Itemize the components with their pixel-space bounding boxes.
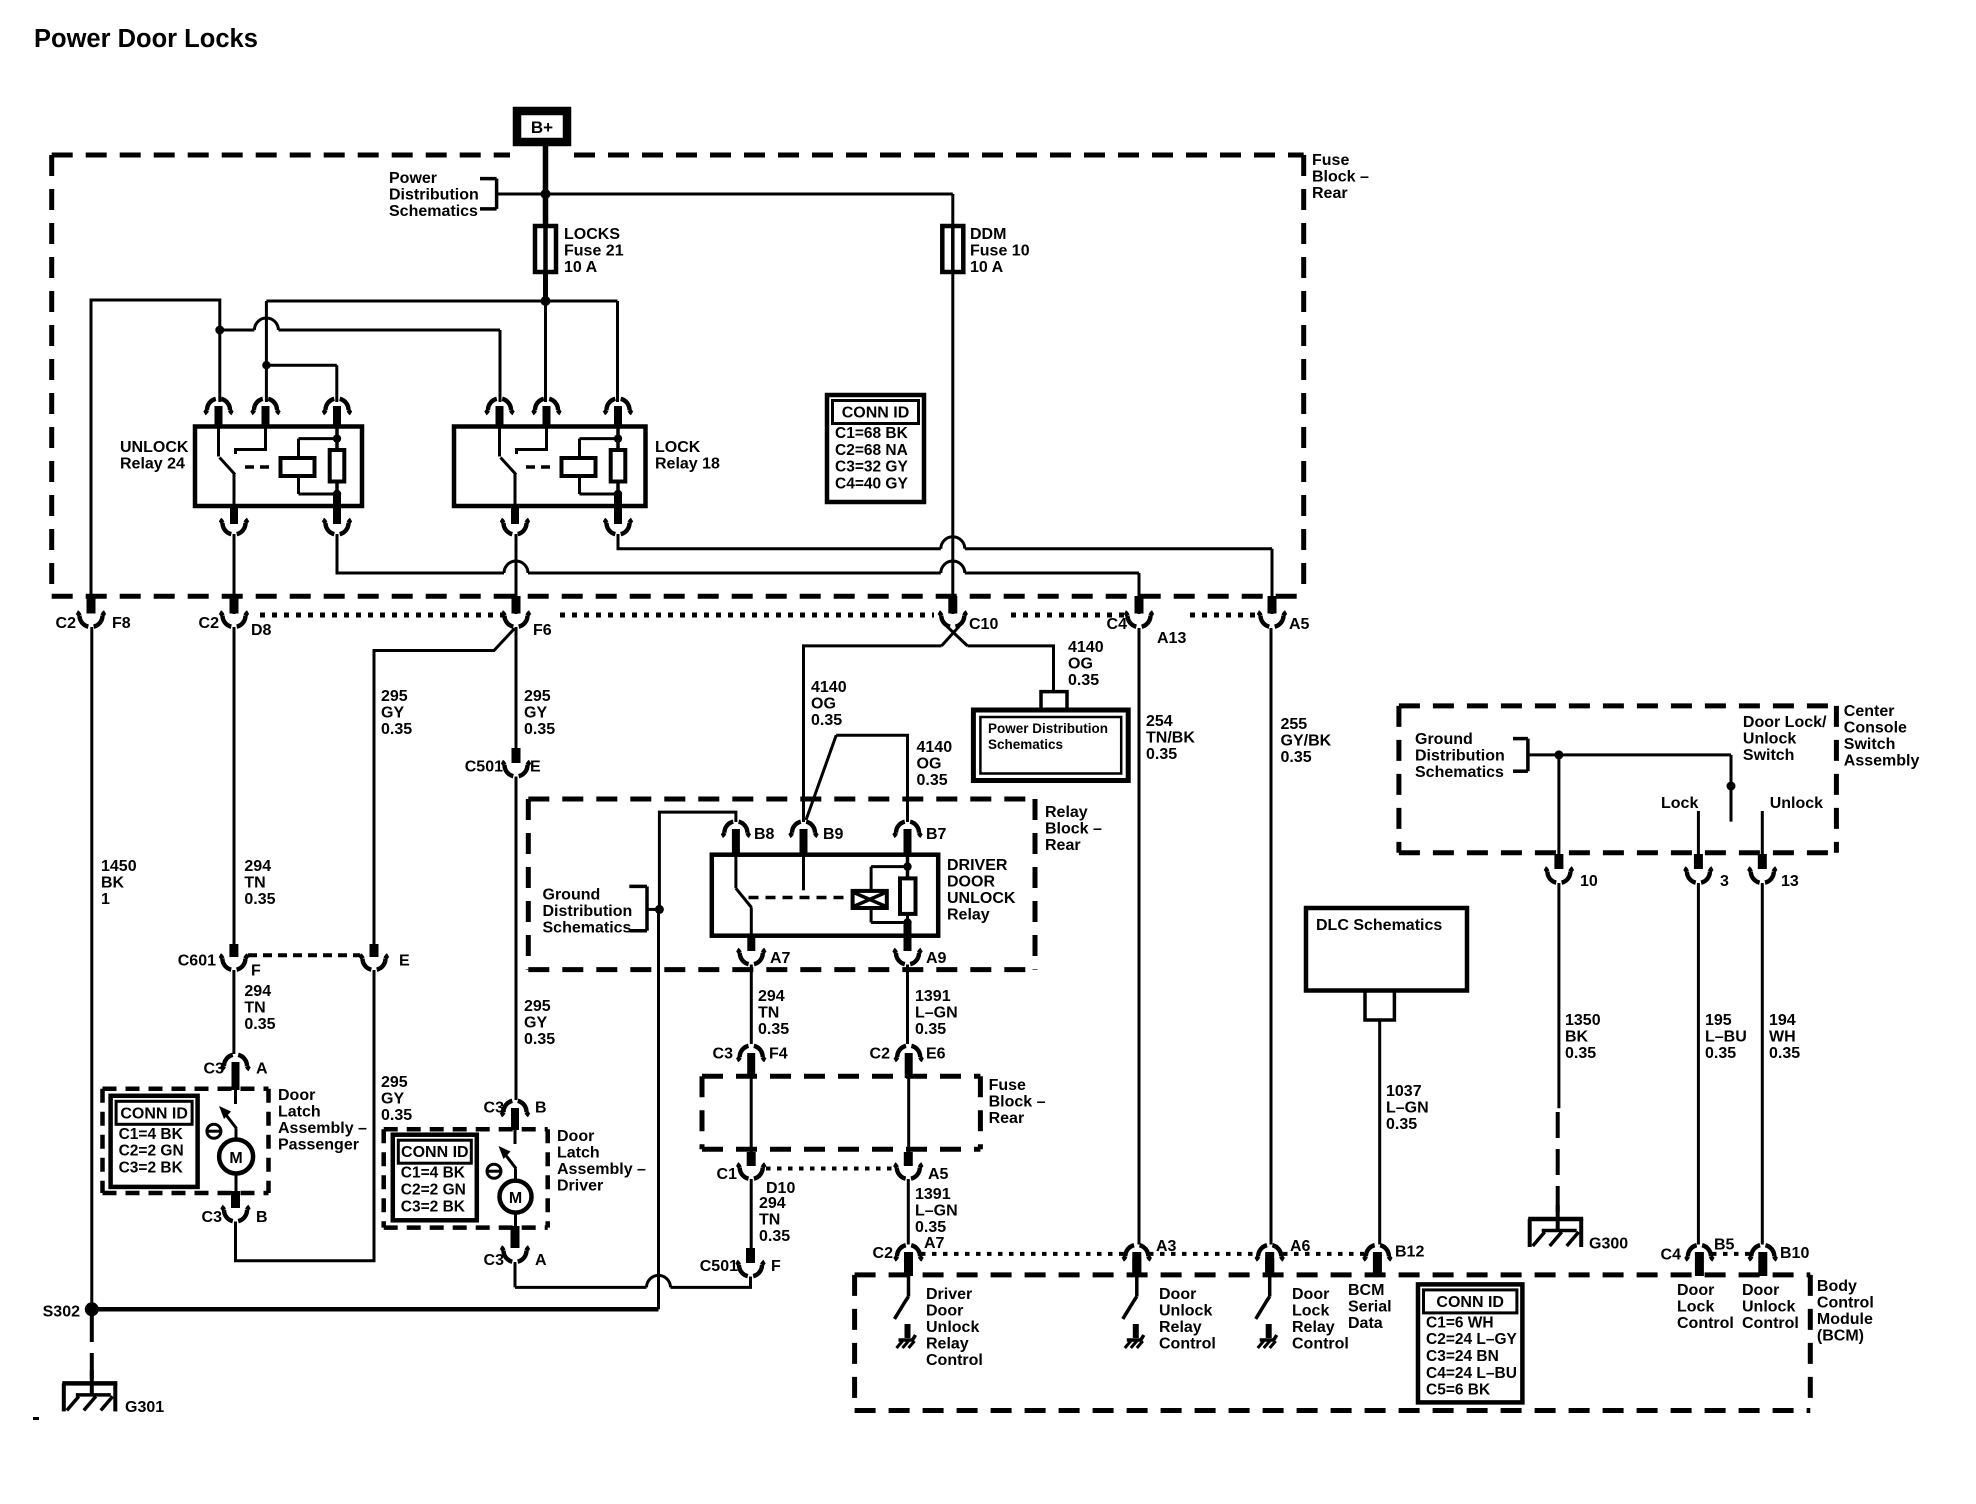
wire F4-D10 through fuse block [750,1078,753,1152]
label B (pass) [256,1209,268,1226]
label C3 (drv A) [484,1252,505,1269]
connector C2 A7 (BCM) [894,1245,922,1276]
connector A13 [1125,596,1153,627]
label door lock/unlock switch [1743,714,1827,764]
svg-text:Serial: Serial [1348,1299,1392,1316]
wire UNLOCK sw out to D8 [233,534,236,614]
connector C2 E6 [895,1046,923,1078]
svg-text:Unlock: Unlock [1742,1299,1795,1316]
label A (drv) [535,1252,547,1269]
label A6 [1290,1238,1311,1255]
svg-text:M: M [229,1150,242,1167]
svg-text:C501: C501 [465,759,503,776]
svg-text:C2=24 L–GY: C2=24 L–GY [1426,1331,1518,1348]
svg-text:UNLOCK: UNLOCK [120,439,189,456]
hop over F6 line [504,561,528,573]
svg-text:Fuse 10: Fuse 10 [970,243,1030,260]
svg-text:Assembly –: Assembly – [557,1161,646,1178]
connector pin 10 [1545,854,1573,883]
label door lock control [1677,1282,1734,1332]
svg-text:Relay: Relay [926,1336,969,1353]
node ground bus [655,905,664,914]
relay DDU coil bracket [871,867,907,923]
svg-text:0.35: 0.35 [244,891,275,908]
svg-text:Rear: Rear [1312,185,1348,202]
svg-text:GY/BK: GY/BK [1281,733,1332,750]
connector C1 D10 [737,1152,765,1179]
label B5 [1714,1237,1735,1254]
label 1450 BK 1 [101,858,137,908]
svg-text:C3: C3 [713,1046,734,1063]
svg-text:C4: C4 [1107,616,1128,633]
connector F6 [502,596,530,627]
label A7 [770,950,791,967]
svg-text:0.35: 0.35 [758,1021,789,1038]
label 195 L-BU 0.35 [1705,1012,1747,1062]
label C2 (E6) [870,1046,891,1063]
connector A5 (lower) [894,1152,922,1179]
svg-text:295: 295 [524,998,551,1015]
svg-text:1450: 1450 [101,858,137,875]
label 295 GY 0.35 (C601 side) [381,688,412,738]
label F8 [112,615,131,632]
svg-text:Relay: Relay [947,907,990,924]
svg-text:BCM: BCM [1348,1282,1384,1299]
svg-text:Block –: Block – [1045,821,1102,838]
svg-text:DDM: DDM [970,226,1006,243]
svg-text:254: 254 [1146,713,1173,730]
svg-text:B8: B8 [754,826,775,843]
svg-text:DRIVER: DRIVER [947,857,1008,874]
label C501 (F) [700,1258,738,1275]
svg-text:C2: C2 [56,615,77,632]
svg-text:0.35: 0.35 [1565,1045,1596,1062]
svg-text:GY: GY [524,1015,547,1032]
stray mark [33,1417,39,1420]
relay DRIVER DOOR UNLOCK [712,855,938,936]
conn id driver latch [393,1135,477,1221]
svg-text:C3: C3 [202,1209,223,1226]
label 295 GY 0.35 (C501 side) [524,688,555,738]
svg-text:B: B [256,1209,268,1226]
relay UNLOCK Relay 24 [120,399,362,534]
dotted line D10-A5 [766,1167,894,1171]
svg-text:Block –: Block – [989,1094,1046,1111]
svg-text:TN: TN [758,1005,779,1022]
svg-text:CONN ID: CONN ID [842,405,910,422]
wire lock contact [1697,811,1700,854]
svg-text:F: F [251,963,261,980]
node unlock pin2/pin3 [262,361,270,369]
label E (C501) [530,759,541,776]
svg-text:Fuse 21: Fuse 21 [564,243,624,260]
svg-text:Data: Data [1348,1315,1383,1332]
connector C501 F [736,1248,764,1276]
label C3 (F4) [713,1046,734,1063]
label center console switch assembly [1844,703,1920,770]
wire DLC to B12 [1378,1020,1381,1245]
motor M passenger [219,1129,253,1192]
svg-text:B9: B9 [823,826,844,843]
node switch common [1554,750,1563,759]
svg-text:Lock: Lock [1661,795,1698,812]
label C2 at D8 [199,615,220,632]
label 295 GY 0.35 (E lower) [381,1074,412,1124]
wire 4140 diagonal to B9 [806,735,836,820]
svg-text:Rear: Rear [989,1110,1025,1127]
label C3 (pass B) [202,1209,223,1226]
svg-text:Control: Control [1292,1336,1349,1353]
svg-text:F4: F4 [769,1046,788,1063]
svg-text:A13: A13 [1157,630,1186,647]
wire ground to B8 [659,812,736,909]
label E6 [926,1046,946,1063]
label C3 (pass A) [204,1061,225,1078]
svg-text:Door: Door [1742,1282,1779,1299]
wire D8 to C601/F [233,627,236,944]
label F (C601) [251,963,261,980]
label C601 [178,953,216,970]
label door latch assembly - passenger [278,1087,367,1154]
svg-text:Schematics: Schematics [988,737,1063,752]
dotted BCM connector line [921,1252,1750,1256]
label body control module [1817,1278,1874,1345]
dashed C601 connector line [248,953,360,957]
wire A5 to A6 [1270,628,1273,1245]
label F (C501) [771,1258,781,1275]
svg-text:Console: Console [1844,720,1907,737]
wire A7 to F4 [750,965,753,1045]
svg-text:0.35: 0.35 [915,1021,946,1038]
label B12 [1395,1244,1424,1261]
svg-text:Schematics: Schematics [1415,764,1504,781]
svg-text:0.35: 0.35 [381,1107,412,1124]
label Unlock [1770,795,1823,812]
svg-text:1037: 1037 [1386,1083,1422,1100]
label G301 [125,1399,164,1416]
svg-text:CONN ID: CONN ID [120,1105,188,1122]
fuse LOCKS Fuse 21 10A [535,226,556,272]
wire pin 10 [1557,755,1560,854]
svg-text:UNLOCK: UNLOCK [947,890,1016,907]
svg-text:Switch: Switch [1844,736,1896,753]
connector F8 [77,596,105,627]
svg-text:A5: A5 [928,1166,949,1183]
svg-text:LOCK: LOCK [655,439,701,456]
svg-text:1: 1 [101,891,110,908]
svg-text:F6: F6 [533,622,552,639]
label driver door unlock relay [947,857,1016,924]
connector A6 (BCM) [1256,1245,1284,1276]
connector pin 3 [1684,854,1712,883]
svg-text:C3=24 BN: C3=24 BN [1426,1348,1499,1365]
BCM door lock relay control switch [1256,1258,1277,1348]
svg-text:Distribution: Distribution [1415,748,1505,765]
svg-text:L–GN: L–GN [915,1203,958,1220]
svg-text:3: 3 [1720,873,1729,890]
wire LOCK sw out to F6 [515,534,518,614]
wire F6 to passenger branch [374,629,515,945]
label driver door unlock relay control [926,1286,983,1369]
relay DDU mech dashes [749,896,846,900]
label C501 (E) [465,759,503,776]
wire to G300 dashed [1556,1112,1560,1216]
svg-text:L–BU: L–BU [1705,1029,1747,1046]
svg-text:Fuse: Fuse [989,1077,1026,1094]
label C4 (BCM) [1661,1247,1682,1264]
wire 4140 to B7 [836,735,907,822]
svg-text:GY: GY [381,1091,404,1108]
wire A9 to E6 [906,965,909,1045]
wire C601/F to latch A [232,970,235,1054]
conn id BCM [1418,1284,1522,1402]
label 294 TN 0.35 (C601) [244,983,275,1033]
svg-text:D8: D8 [251,622,272,639]
bracket power dist box [1041,692,1067,709]
svg-text:A9: A9 [926,950,947,967]
wire F8 to S302 [90,627,93,1309]
label A7 (BCM) [924,1235,945,1252]
svg-text:C2=2 GN: C2=2 GN [119,1143,184,1160]
fuse block - rear (lower) dashed boundary [702,1076,980,1149]
svg-text:4140: 4140 [917,739,953,756]
box DLC schematics [1306,908,1467,991]
svg-text:C2: C2 [870,1046,891,1063]
label 4140 OG 0.35 right [1068,639,1104,689]
label door unlock relay control [1159,1286,1216,1353]
svg-text:L–GN: L–GN [915,1005,958,1022]
label 194 WH 0.35 [1769,1012,1800,1062]
label S302 [43,1304,80,1321]
door latch assembly - driver dashed box [384,1129,548,1227]
svg-text:Ground: Ground [543,887,601,904]
svg-text:0.35: 0.35 [524,721,555,738]
label A9 [926,950,947,967]
wire to DDM fuse [546,194,953,227]
svg-text:Door: Door [1677,1282,1714,1299]
svg-text:OG: OG [917,756,942,773]
svg-text:TN: TN [244,875,265,892]
label 1037 L-GN 0.35 [1386,1083,1429,1133]
svg-text:Control: Control [1817,1295,1874,1312]
svg-text:F8: F8 [112,615,131,632]
wire DDM fuse to C10 [951,272,954,614]
svg-text:Center: Center [1844,703,1895,720]
svg-text:BK: BK [1565,1029,1589,1046]
svg-text:DLC Schematics: DLC Schematics [1316,917,1442,934]
svg-text:C501: C501 [700,1258,738,1275]
B+ terminal [517,111,567,142]
svg-text:C10: C10 [969,616,998,633]
svg-text:Control: Control [1677,1315,1734,1332]
wire down to LOCK relay pin3 [616,301,619,402]
wire E6-A5 through fuse block [907,1078,910,1152]
BCM driver door unlock relay control switch [895,1258,916,1348]
fuse block - rear (lower) label [989,1077,1046,1127]
wire down to LOCK relay pin1 [499,330,502,402]
node on B+ feed [541,189,551,199]
hop over DDM line [941,561,965,573]
svg-text:E: E [399,953,410,970]
connector B9 [789,822,817,856]
door latch assembly - passenger dashed box [103,1089,269,1193]
wire down to UNLOCK pin1 [218,330,221,402]
ground G301 [62,1370,117,1411]
wire hop over pin2 feed [254,318,278,330]
svg-text:G300: G300 [1589,1236,1628,1253]
dotted relay block boundary [260,613,1257,618]
label C2 (BCM) [873,1245,894,1262]
svg-text:Module: Module [1817,1311,1873,1328]
label B8 [754,826,775,843]
connector B8 [722,822,750,856]
connector B7 [893,822,921,856]
label C4 [1107,616,1128,633]
svg-text:S302: S302 [43,1304,80,1321]
label door lock relay control [1292,1286,1349,1353]
svg-text:295: 295 [381,688,408,705]
svg-text:A: A [256,1061,268,1078]
bracket DLC [1365,991,1394,1021]
label A13 [1157,630,1186,647]
svg-text:A: A [535,1252,547,1269]
conn id passenger latch [111,1096,198,1187]
label C2 at F8 [56,615,77,632]
driver latch switch [499,1130,517,1169]
svg-text:1391: 1391 [915,988,951,1005]
relay LOCK Relay 18 [454,399,720,534]
svg-text:GY: GY [381,705,404,722]
connector pin 13 [1748,854,1776,883]
connector B10 (BCM) [1749,1245,1777,1276]
svg-text:Unlock: Unlock [926,1319,979,1336]
svg-text:Passenger: Passenger [278,1137,359,1154]
relay block - rear dashed boundary [528,799,1035,970]
body control module dashed boundary [855,1275,1811,1411]
wire UNLOCK coil out [337,534,1139,614]
label door latch assembly - driver [557,1128,646,1195]
svg-text:4140: 4140 [811,679,847,696]
svg-text:294: 294 [244,858,271,875]
power distribution schematics reference [389,170,479,220]
svg-text:E: E [530,759,541,776]
svg-text:C3=2 BK: C3=2 BK [401,1198,466,1215]
svg-text:1391: 1391 [915,1186,951,1203]
svg-text:LOCKS: LOCKS [564,226,620,243]
wire bus left segment [91,300,220,596]
label LOCKS fuse [564,226,624,276]
label B10 [1780,1245,1809,1262]
label E (C601) [399,953,410,970]
svg-text:0.35: 0.35 [917,772,948,789]
ground distribution schematics (console) [1415,731,1505,781]
connector C3 A (passenger) [221,1055,249,1090]
svg-text:CONN ID: CONN ID [401,1144,469,1161]
svg-text:B+: B+ [531,118,553,137]
label 1391 L-GN 0.35 (A9) [915,988,958,1038]
svg-text:0.35: 0.35 [811,712,842,729]
node DDU coil top [903,862,911,870]
wire F6 to C501/E [515,627,518,748]
svg-text:DOOR: DOOR [947,874,995,891]
svg-text:Latch: Latch [557,1145,600,1162]
svg-text:Schematics: Schematics [389,203,478,220]
svg-text:Relay: Relay [1159,1319,1202,1336]
svg-text:Relay: Relay [1292,1319,1335,1336]
wire passenger B to C601/E [236,970,375,1261]
wire S302 to G301 dashed [90,1316,94,1382]
label A5 [1289,616,1310,633]
wire pin2 feed down [265,301,268,402]
svg-text:Assembly: Assembly [1844,753,1920,770]
svg-text:Control: Control [1742,1315,1799,1332]
svg-text:0.35: 0.35 [759,1228,790,1245]
bracket ground (console) [1513,739,1557,772]
svg-text:0.35: 0.35 [1068,672,1099,689]
svg-text:Control: Control [1159,1336,1216,1353]
wire C501/F to driver latch A [515,1277,751,1288]
wire D10 to C501/F [750,1179,753,1248]
driver latch theta [487,1164,501,1178]
wire branch to UNLOCK pin3 [266,365,336,402]
svg-text:Distribution: Distribution [389,187,479,204]
node S below LOCKS fuse [541,296,551,306]
svg-text:Power Distribution: Power Distribution [988,721,1108,736]
passenger latch switch [219,1090,237,1129]
connector A5 [1258,596,1286,627]
label 294 TN 0.35 (D10) [759,1195,790,1245]
label 4140 OG 0.35 left [811,679,847,729]
wire A13 to A3 [1138,628,1141,1245]
svg-text:OG: OG [1068,656,1093,673]
svg-text:Driver: Driver [557,1178,603,1195]
label 1350 BK 0.35 [1565,1012,1601,1062]
svg-text:Unlock: Unlock [1743,731,1796,748]
svg-text:Block –: Block – [1312,169,1369,186]
svg-text:255: 255 [1281,716,1308,733]
label B (drv) [535,1100,547,1117]
label 295 GY 0.35 lower right [524,998,555,1048]
passenger latch theta [207,1124,221,1138]
label C3 (drv B) [484,1100,505,1117]
svg-text:Relay 24: Relay 24 [120,456,185,473]
svg-text:CONN ID: CONN ID [1436,1294,1504,1311]
ground G300 [1528,1205,1583,1247]
svg-text:A7: A7 [924,1235,945,1252]
svg-text:(BCM): (BCM) [1817,1328,1864,1345]
svg-text:B: B [535,1100,547,1117]
connector B12 (BCM) [1363,1245,1391,1276]
svg-text:195: 195 [1705,1012,1732,1029]
svg-text:Fuse: Fuse [1312,152,1349,169]
connector C501 E [502,748,530,776]
svg-text:1350: 1350 [1565,1012,1601,1029]
svg-text:A5: A5 [1289,616,1310,633]
svg-text:13: 13 [1781,873,1799,890]
svg-text:Door: Door [557,1128,594,1145]
hop over ground line [647,1275,671,1287]
node rocker pivot [1727,782,1736,791]
fuse block - rear dashed boundary [52,155,1304,596]
relay DDU coil [853,891,887,908]
wire S302 bus [92,1307,659,1312]
label 4140 OG 0.35 at B7 [917,739,953,789]
label F4 [769,1046,788,1063]
relay block - rear label [1045,804,1102,854]
connector C3 B (driver) [501,1101,529,1130]
svg-text:Door: Door [1292,1286,1329,1303]
node unlock bus [215,326,224,335]
